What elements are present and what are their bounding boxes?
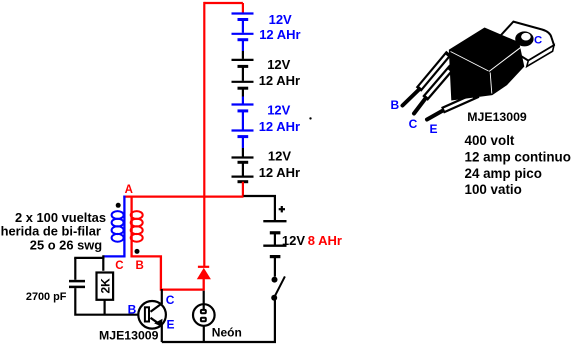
wire: neon bottom lead bbox=[203, 326, 205, 342]
battery B2 cell 1 (black) bbox=[232, 60, 254, 81]
wire: red stub battery stack bottom to node A line bbox=[242, 182, 244, 196]
svg-text:C: C bbox=[166, 293, 175, 307]
svg-text:8 AHr: 8 AHr bbox=[308, 233, 342, 248]
diode D1 cathode bar bbox=[198, 266, 209, 268]
svg-text:12 AHr: 12 AHr bbox=[259, 27, 300, 42]
transformer primary lead (red) top bbox=[130, 196, 132, 257]
wire: black from stack bottom to 8AHr battery bbox=[244, 196, 275, 220]
transistor Q1 collector lead bbox=[151, 289, 162, 312]
svg-text:Neón: Neón bbox=[212, 325, 242, 339]
transistor Q1 circle bbox=[138, 301, 166, 329]
svg-text:B: B bbox=[128, 303, 137, 317]
wire: switch to bottom return bbox=[274, 298, 276, 342]
polarity dot bottom bbox=[135, 249, 140, 254]
transistor Q1 base bar bbox=[145, 307, 149, 321]
diode D1 anode lead bbox=[203, 279, 205, 291]
battery B1 cell 2 (blue) bbox=[232, 34, 254, 51]
battery B3 cell 1 (blue) bbox=[232, 105, 254, 130]
svg-text:MJE13009: MJE13009 bbox=[467, 110, 527, 124]
switch S1 bottom contact bbox=[271, 295, 277, 301]
svg-text:2700 pF: 2700 pF bbox=[26, 291, 67, 303]
wire: left red vertical down to diode cathode bbox=[203, 2, 205, 267]
neon electrode top bbox=[201, 310, 206, 313]
wire: diode junction down to neon bbox=[203, 291, 205, 310]
TO-220 tab hole bbox=[515, 31, 533, 46]
svg-text:12V: 12V bbox=[267, 57, 290, 72]
battery B1 cell 1 (blue) bbox=[232, 14, 254, 33]
stub between B2 and B3 bbox=[242, 97, 244, 104]
battery B4 cell 1 (black) bbox=[232, 158, 254, 176]
svg-text:12V: 12V bbox=[268, 148, 291, 163]
svg-text:400 volt: 400 volt bbox=[465, 133, 515, 148]
svg-text:12 amp continuo: 12 amp continuo bbox=[465, 150, 571, 165]
diode D1 triangle bbox=[197, 268, 211, 279]
TO-220 leg E bbox=[427, 95, 478, 120]
transformer red coil L2 bbox=[131, 211, 143, 242]
wire: bottom return bbox=[162, 341, 276, 343]
switch S1 lever bbox=[274, 276, 285, 297]
svg-text:12 AHr: 12 AHr bbox=[259, 119, 300, 134]
svg-text:12 AHr: 12 AHr bbox=[259, 73, 300, 88]
svg-text:100 vatio: 100 vatio bbox=[465, 182, 522, 197]
svg-text:24 amp pico: 24 amp pico bbox=[465, 166, 542, 181]
svg-text:12V: 12V bbox=[267, 103, 290, 118]
transformer feedback lead (blue) top bbox=[123, 196, 125, 257]
TO-220 body bbox=[450, 28, 524, 99]
svg-text:B: B bbox=[391, 98, 400, 112]
svg-text:E: E bbox=[430, 122, 438, 136]
stray dot bbox=[309, 117, 311, 119]
TO-220 body edge highlight bbox=[489, 47, 522, 72]
transformer blue coil L1 bbox=[112, 211, 124, 242]
wire: red coil bottom lead to collector node bbox=[132, 255, 203, 289]
transistor Q1 emitter lead bbox=[151, 318, 162, 342]
svg-text:25 o 26 swg: 25 o 26 swg bbox=[30, 237, 102, 252]
stub between B3 and B4 bbox=[242, 148, 244, 157]
battery 8AHr cell 2 bbox=[263, 246, 286, 277]
svg-text:12 AHr: 12 AHr bbox=[259, 165, 300, 180]
svg-text:herida de bi-filar: herida de bi-filar bbox=[1, 223, 101, 238]
wire: black junction to capacitor and resistor top bbox=[102, 255, 104, 270]
wire: red stub battery stack top bbox=[242, 3, 244, 14]
label + (8AHr battery) bbox=[279, 206, 285, 212]
resistor R1 bottom lead bbox=[103, 301, 105, 315]
switch S1 top contact bbox=[272, 277, 278, 283]
neon lamp circle bbox=[193, 304, 215, 326]
TO-220 leg B bbox=[403, 53, 450, 106]
TO-220 leg C bbox=[414, 67, 452, 114]
wire: top-left red feed from battery stack top bbox=[204, 2, 243, 4]
svg-text:2K: 2K bbox=[99, 278, 113, 294]
TO-220 body top/front edge bbox=[451, 52, 489, 72]
TO-220 tab bbox=[496, 22, 554, 61]
transistor Q1 emitter arrow bbox=[154, 319, 162, 327]
TO-220 tab thickness bbox=[527, 45, 554, 66]
capacitor C1 bottom lead bbox=[75, 288, 138, 315]
resistor R1 2K body bbox=[97, 273, 114, 300]
neon electrode bottom bbox=[201, 318, 206, 322]
battery B3 cell 2 (blue) bbox=[232, 131, 254, 149]
svg-text:C: C bbox=[409, 117, 418, 131]
svg-text:12V: 12V bbox=[269, 12, 292, 27]
stub between B1 and B2 bbox=[242, 51, 244, 59]
capacitor C1 plates bbox=[69, 280, 85, 283]
battery 8AHr cell 1 bbox=[263, 221, 286, 244]
battery B4 cell 2 (black) bbox=[232, 177, 254, 182]
svg-text:A: A bbox=[125, 184, 133, 196]
svg-text:C: C bbox=[115, 260, 123, 272]
svg-text:MJE13009: MJE13009 bbox=[99, 328, 159, 342]
battery B2 cell 2 (black) bbox=[232, 82, 254, 97]
svg-text:12V: 12V bbox=[282, 233, 305, 248]
TO-220 body front/right edge bbox=[490, 73, 492, 94]
svg-text:C: C bbox=[534, 35, 542, 47]
wire: blue coil bottom lead to C bbox=[103, 255, 124, 256]
polarity dot top bbox=[116, 203, 121, 208]
capacitor C1 top lead bbox=[74, 258, 76, 280]
svg-text:E: E bbox=[167, 318, 175, 332]
svg-text:B: B bbox=[136, 260, 144, 272]
node A red wire (horizontal) bbox=[123, 195, 243, 197]
